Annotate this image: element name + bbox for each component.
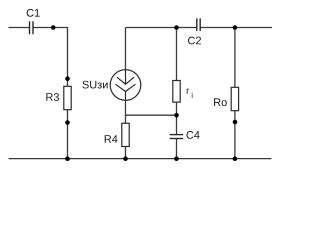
node rail dot at R3 xyxy=(65,156,70,161)
wire bottom rail xyxy=(9,158,272,160)
capacitor C2 xyxy=(197,18,200,31)
node rail dot at R4 xyxy=(123,156,128,161)
label C1 xyxy=(27,9,40,17)
label R3 xyxy=(46,93,59,101)
label Ro xyxy=(214,98,227,106)
node rail dot at C4 xyxy=(174,156,179,161)
wire C2 to output right xyxy=(200,27,272,29)
label ri xyxy=(187,89,193,98)
node dot after C1 xyxy=(51,25,56,30)
wire C4 bottom to rail xyxy=(176,139,178,159)
node dot right of C2 at Ro branch xyxy=(233,25,238,30)
capacitor C4 xyxy=(170,135,184,139)
resistor R4 xyxy=(122,123,129,146)
wire Ro branch vertical xyxy=(234,28,236,159)
wire current-source branch vertical xyxy=(125,28,127,159)
node dot above R3 xyxy=(65,76,70,81)
wire top middle horizontal to C2 xyxy=(126,27,197,29)
label SUzi xyxy=(82,81,107,89)
resistor ri xyxy=(173,81,180,103)
node dot below R3 xyxy=(65,120,70,125)
resistor R3 xyxy=(64,86,71,109)
current source SUzi (circle with double chevron) xyxy=(110,70,141,101)
label R4 xyxy=(105,135,118,143)
wire middle horizontal R4 node to ri node xyxy=(126,114,177,116)
node dot below Ro xyxy=(233,120,238,125)
label C2 xyxy=(188,37,201,45)
node rail dot at Ro xyxy=(233,156,238,161)
wire ri branch vertical down to C4 xyxy=(176,28,178,135)
wire R3 branch vertical xyxy=(67,28,69,159)
label C4 xyxy=(186,131,199,139)
node dot left of C2 xyxy=(174,25,179,30)
node dot at ri/C4/R4 junction xyxy=(174,113,179,118)
wire C1 to corner at R3 branch xyxy=(33,27,67,30)
capacitor C1 xyxy=(30,21,34,34)
wire input left to C1 xyxy=(9,27,30,29)
resistor Ro xyxy=(231,87,238,110)
